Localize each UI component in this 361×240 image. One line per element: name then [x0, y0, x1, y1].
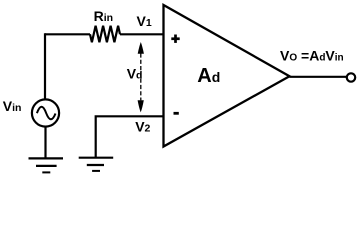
svg-text:Ad: Ad — [197, 65, 220, 87]
